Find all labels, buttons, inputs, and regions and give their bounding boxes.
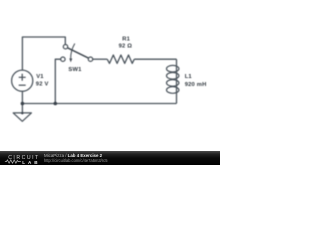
inductor L1: [167, 65, 179, 93]
CircuitLab logo: [8, 156, 40, 160]
footer bar: [0, 151, 220, 165]
svg-text:L1: L1: [185, 74, 193, 80]
switch SW1 motion arrow: [71, 44, 75, 60]
wire: SW1 throw B to bottom rail: [55, 59, 60, 103]
svg-text:R1: R1: [122, 36, 130, 42]
wire: SW1 common to R1: [93, 58, 107, 60]
footer text line 1: [44, 153, 102, 158]
svg-text:V1: V1: [36, 74, 44, 80]
footer text line 2: [44, 158, 107, 163]
svg-text:920 mH: 920 mH: [185, 82, 207, 88]
svg-text:92 Ω: 92 Ω: [119, 44, 133, 50]
wire: inductor spine: [176, 59, 178, 103]
wire: R1 to top-right corner: [134, 58, 176, 60]
switch SW1 terminal: throw A (top): [63, 45, 67, 49]
ground: [13, 113, 31, 121]
junction node at SW1 branch / bottom rail: [54, 102, 58, 106]
svg-text:SW1: SW1: [68, 67, 82, 73]
wire: V1 top up, across top, down to SW1 throw A: [22, 37, 65, 70]
switch SW1 blade: [68, 48, 89, 58]
logo resistor squiggle: [5, 160, 21, 163]
junction node at V1 / ground / bottom rail: [21, 102, 25, 106]
voltage source V1: [12, 70, 33, 91]
resistor R1: [107, 55, 134, 63]
wire: V1 bottom stub: [21, 91, 23, 103]
V1 minus: [19, 84, 26, 86]
switch SW1 terminal: common (right): [88, 57, 92, 61]
wire: ground stub: [21, 104, 23, 113]
wire: bottom rail: [22, 103, 176, 105]
V1 plus: [19, 74, 26, 81]
svg-text:92 V: 92 V: [36, 82, 49, 88]
switch SW1 terminal: throw B (left): [61, 57, 65, 61]
